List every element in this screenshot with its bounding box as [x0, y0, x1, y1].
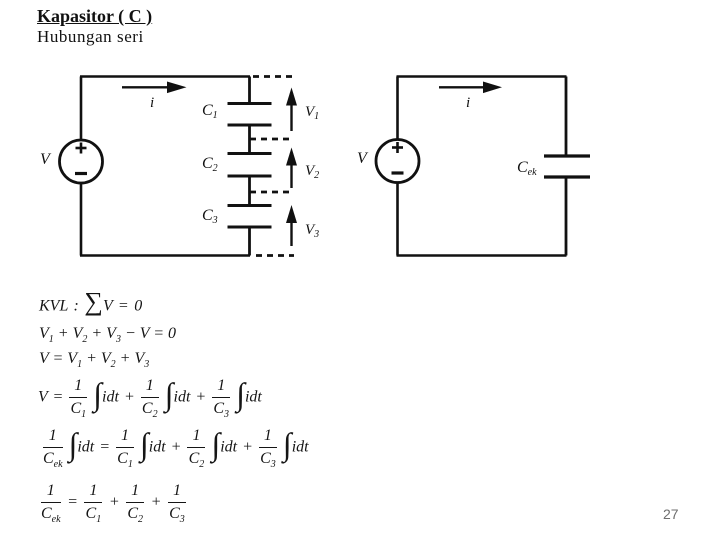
- wire: right circuit left side: [396, 77, 399, 256]
- svg-text:V2: V2: [305, 163, 319, 181]
- wire: left circuit top (node A): [80, 75, 250, 78]
- wire: left circuit left side: [80, 77, 83, 256]
- wire: right circuit top: [397, 75, 567, 78]
- svg-text:V: V: [40, 151, 52, 168]
- voltage source V (left circuit): [60, 140, 103, 183]
- node line: dashed top: [253, 75, 294, 78]
- svg-text:V: V: [357, 150, 369, 167]
- wire: right circuit bottom: [397, 254, 567, 257]
- voltage arrow V3: [286, 205, 297, 246]
- voltage arrow V2: [286, 148, 297, 189]
- wire: segment C1 to C2 (node B): [248, 125, 251, 153]
- current arrow i (left circuit): [122, 82, 187, 94]
- capacitor C2: [228, 154, 272, 177]
- svg-text:C1: C1: [202, 102, 218, 121]
- wire: left circuit bottom: [80, 254, 250, 257]
- svg-text:V3: V3: [305, 222, 319, 240]
- node line: dashed between C2 and C3: [250, 191, 294, 194]
- wire: segment C3 to bottom node: [248, 227, 251, 256]
- wire: segment Cek to bottom: [565, 177, 568, 256]
- svg-text:C2: C2: [202, 155, 218, 174]
- svg-text:Cek: Cek: [517, 159, 537, 178]
- voltage arrow V1: [286, 88, 297, 132]
- svg-text:V1: V1: [305, 104, 319, 122]
- current arrow i (right circuit): [439, 82, 502, 94]
- svg-text:i: i: [150, 95, 154, 111]
- capacitor Cek: [544, 156, 590, 177]
- node line: dashed bottom: [256, 254, 294, 257]
- wire: segment C2 to C3 (node C): [248, 176, 251, 205]
- svg-text:i: i: [466, 95, 470, 111]
- svg-text:C3: C3: [202, 207, 218, 226]
- capacitor C1: [228, 104, 272, 126]
- capacitor C3: [228, 206, 272, 228]
- wire: segment top node to C1: [248, 77, 251, 104]
- wire: segment top to Cek: [565, 77, 568, 156]
- voltage source V (right circuit): [376, 140, 419, 183]
- node line: dashed between C1 and C2: [250, 138, 294, 141]
